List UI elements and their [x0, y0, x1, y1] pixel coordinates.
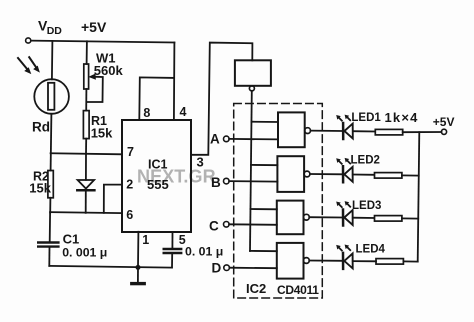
wire junction rail (pin 7 net) [51, 153, 122, 154]
svg-text:CD4011: CD4011 [277, 283, 319, 297]
wire C input [229, 223, 277, 226]
light arrow 1 [18, 58, 28, 70]
wire to right bus [402, 217, 418, 219]
capacitor C3 0.01u [164, 248, 182, 250]
wire D input [229, 267, 276, 270]
block U3 driver box [235, 60, 271, 86]
LED3 light arrows [338, 204, 341, 207]
light arrow 2 [29, 57, 36, 68]
LED1 light arrows [338, 117, 341, 120]
svg-text:C1: C1 [63, 232, 80, 247]
wire to right bus [403, 260, 417, 262]
svg-text:LED3: LED3 [352, 200, 381, 212]
wire lower rail (pin 6 net) [50, 212, 122, 213]
LED4 [342, 253, 345, 269]
wire pin 2 loop [104, 185, 122, 213]
wire diode to lower rail [85, 192, 87, 213]
resistor R6 [376, 259, 403, 265]
resistor R5 [375, 216, 402, 222]
LED2 [342, 166, 345, 182]
svg-text:LED4: LED4 [356, 244, 386, 256]
node A terminal [224, 136, 230, 142]
pin 4 wire [173, 43, 176, 121]
node C terminal [224, 222, 230, 228]
svg-text:IC1: IC1 [148, 157, 168, 171]
pin 3 wire to block [191, 43, 252, 155]
wire to +5V [403, 131, 442, 133]
svg-text:2: 2 [126, 178, 133, 192]
svg-text:6: 6 [126, 208, 133, 222]
nand gate U2B [277, 156, 304, 192]
op-amp IC1 555 timer box [122, 120, 191, 232]
wire rail to diode [85, 154, 87, 180]
node B terminal [224, 178, 230, 184]
wire W1 to R1 [85, 89, 87, 111]
svg-text:1: 1 [142, 233, 149, 247]
wire R2 to lower rail [49, 198, 51, 213]
junction pin1/ground [136, 265, 141, 270]
wire to right bus [402, 174, 419, 176]
node VDD terminal [26, 38, 31, 43]
potentiometer W1 [84, 64, 89, 89]
wire bus to gate3 [250, 208, 276, 210]
diode D1 [78, 180, 95, 189]
resistor R3 [375, 129, 402, 135]
wire pin 1 [137, 232, 139, 268]
svg-text:LED2: LED2 [351, 155, 380, 167]
svg-text:3: 3 [197, 155, 204, 170]
svg-text:Rd: Rd [32, 120, 50, 135]
wire A input [229, 138, 278, 141]
nand gate U2C [277, 201, 304, 235]
wire +5V right bus [418, 132, 420, 262]
wire photoresistor to R2 [50, 114, 53, 171]
wire gate1 output [311, 130, 343, 132]
resistor R1 [83, 111, 89, 139]
wire +5V top rail [31, 41, 174, 43]
svg-text:0. 01 μ: 0. 01 μ [185, 244, 223, 258]
wire bus to gate2 [251, 164, 278, 166]
LED1 [342, 123, 345, 139]
wire B input [229, 180, 277, 183]
svg-text:DD: DD [47, 25, 63, 37]
svg-text:0. 001 μ: 0. 001 μ [62, 245, 107, 259]
svg-text:B: B [211, 175, 221, 190]
wire C1 to ground rail [48, 247, 50, 266]
W1 wiper arm [87, 77, 103, 102]
node +5V right terminal [441, 129, 446, 134]
svg-text:+5V: +5V [81, 19, 107, 35]
wire ground rail [49, 266, 172, 268]
photoresistor Rd [34, 79, 69, 114]
LED3 [342, 210, 345, 226]
svg-text:IC2: IC2 [246, 281, 266, 296]
wire rail to C1 [49, 212, 51, 242]
svg-text:4: 4 [180, 105, 187, 119]
svg-text:560k: 560k [94, 63, 124, 78]
block output bubble [249, 86, 254, 91]
svg-text:555: 555 [147, 177, 169, 192]
svg-text:7: 7 [127, 145, 134, 159]
svg-text:1k×4: 1k×4 [385, 110, 419, 125]
wire cap to ground rail [171, 253, 173, 267]
wire gate3 output [309, 216, 342, 218]
svg-text:15k: 15k [29, 181, 51, 196]
nand gate U2D [277, 243, 304, 279]
svg-text:15k: 15k [91, 125, 113, 140]
svg-text:+5V: +5V [433, 115, 455, 129]
svg-text:C: C [209, 219, 219, 234]
wire clock bus [250, 91, 252, 251]
wire rail to W1 [86, 41, 88, 64]
svg-text:D: D [212, 261, 222, 276]
resistor R4 [375, 173, 402, 179]
svg-text:A: A [210, 132, 220, 147]
pin 8 wire [139, 77, 174, 120]
node D terminal [224, 265, 230, 271]
ground [137, 267, 139, 281]
wire rail to photoresistor [51, 41, 54, 79]
IC2 dashed outline [234, 104, 323, 299]
wire R1 to rail [85, 139, 87, 154]
capacitor C1 [38, 241, 58, 243]
wire bus to gate4 [250, 250, 277, 252]
nand gate U2A [278, 112, 305, 147]
wire pin 5 to bypass cap [171, 232, 173, 249]
svg-text:8: 8 [143, 106, 150, 120]
svg-text:5: 5 [179, 233, 186, 247]
svg-text:LED1: LED1 [351, 112, 381, 124]
wire gate2 output [310, 173, 342, 175]
resistor R2 [48, 171, 53, 198]
wire bus to gate1 [252, 121, 279, 123]
LED2 light arrows [338, 161, 341, 164]
wire gate4 output [309, 260, 342, 262]
LED4 light arrows [338, 247, 341, 250]
